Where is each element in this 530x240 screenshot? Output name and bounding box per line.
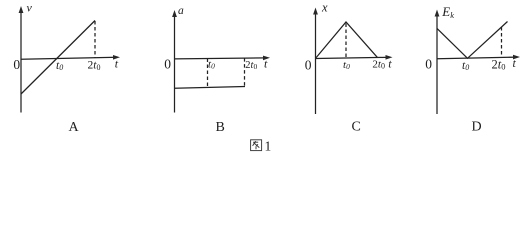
graph A v(t) line: [21, 21, 95, 95]
graph B t-axis: [175, 56, 271, 61]
svg-text:B: B: [216, 120, 225, 135]
svg-text:2t0: 2t0: [245, 60, 257, 71]
graph C x-axis(vertical): [313, 8, 318, 115]
graph C t-axis: [316, 55, 393, 60]
graph D Ek(t) V line: [437, 22, 508, 59]
caption glyph 图 (drawn): [251, 140, 262, 151]
svg-text:Ek: Ek: [441, 4, 454, 20]
svg-text:x: x: [321, 1, 328, 15]
svg-text:2t0: 2t0: [492, 57, 506, 71]
graph D t-axis: [437, 55, 520, 60]
svg-text:0: 0: [13, 57, 20, 72]
svg-text:C: C: [352, 120, 361, 135]
graph D dashed line at 2t0: [501, 27, 503, 58]
graph A v-axis: [19, 6, 24, 113]
svg-text:t: t: [115, 57, 119, 71]
svg-text:a: a: [178, 5, 184, 17]
svg-text:2t0: 2t0: [88, 60, 101, 72]
svg-text:0: 0: [425, 57, 432, 72]
graph C dashed line at t0: [345, 24, 347, 59]
graph A dashed line at 2t0: [94, 21, 96, 58]
graph B a-axis: [172, 10, 177, 113]
graph B a(t) constant negative line: [175, 87, 246, 89]
svg-text:t0: t0: [462, 60, 469, 72]
graph C x(t) triangle: [316, 22, 378, 58]
svg-text:0: 0: [305, 57, 312, 72]
svg-text:t: t: [388, 57, 392, 71]
svg-text:v: v: [27, 1, 33, 15]
graph A t-axis: [21, 55, 120, 60]
svg-text:D: D: [472, 120, 482, 135]
svg-text:t0: t0: [208, 59, 215, 71]
svg-text:1: 1: [265, 139, 272, 154]
svg-text:0: 0: [164, 57, 171, 72]
svg-text:t0: t0: [56, 60, 63, 72]
svg-text:A: A: [69, 120, 80, 135]
graph D Ek-axis: [435, 10, 440, 115]
svg-text:t0: t0: [343, 59, 350, 71]
graph B dashed line at 2t0: [244, 58, 246, 86]
svg-text:2t0: 2t0: [372, 59, 385, 71]
graph B dashed line at t0: [207, 59, 209, 89]
